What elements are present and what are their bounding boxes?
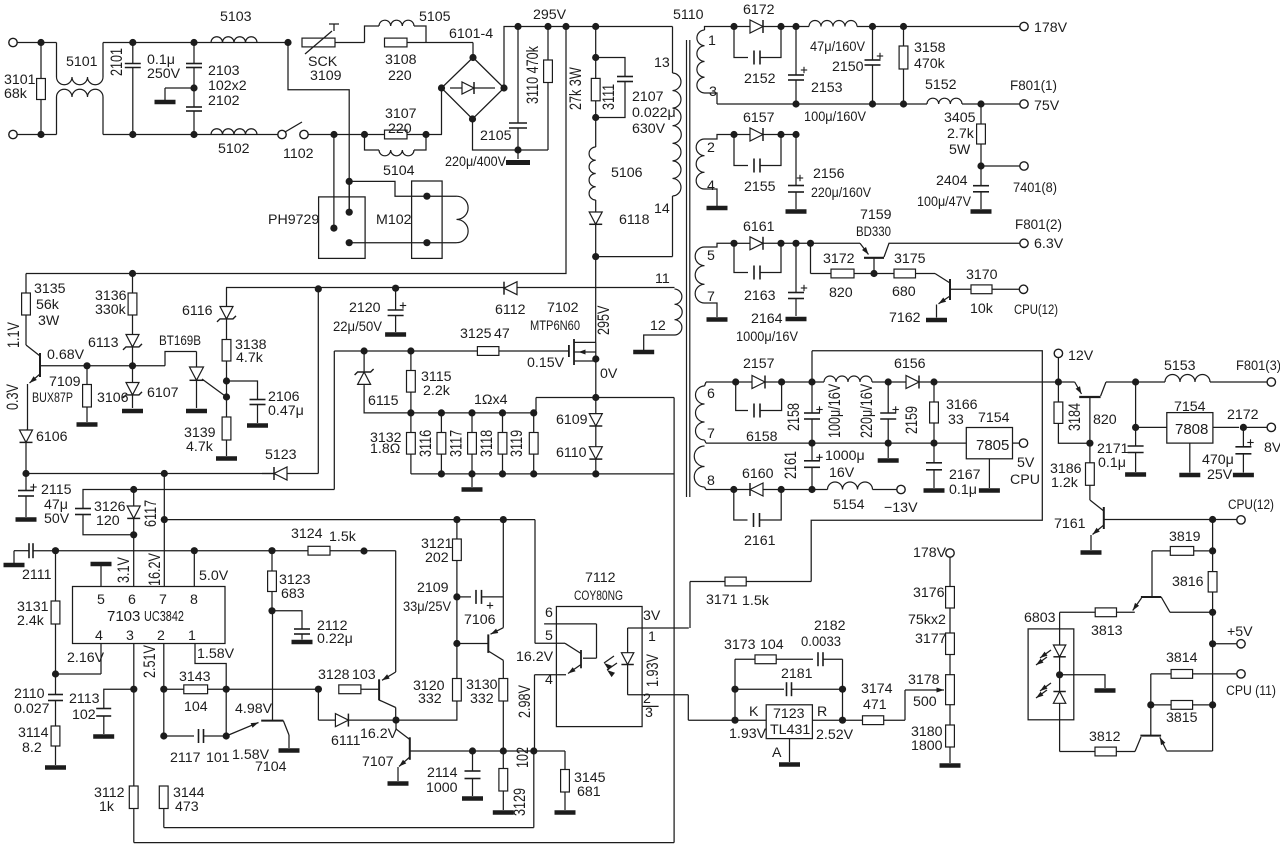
svg-text:3158: 3158 <box>914 40 946 56</box>
svg-text:7159: 7159 <box>860 207 892 223</box>
svg-text:1.93V: 1.93V <box>645 654 663 687</box>
svg-text:1.2k: 1.2k <box>1051 475 1079 491</box>
svg-text:7808: 7808 <box>1175 421 1208 438</box>
svg-text:2182: 2182 <box>814 618 846 634</box>
svg-text:2.7k: 2.7k <box>947 126 975 142</box>
svg-text:6109: 6109 <box>556 412 588 428</box>
svg-text:6106: 6106 <box>36 429 68 445</box>
svg-text:5101: 5101 <box>66 54 98 70</box>
svg-text:F801(2): F801(2) <box>1015 217 1062 233</box>
svg-text:3143: 3143 <box>179 669 211 685</box>
svg-text:2152: 2152 <box>744 71 776 87</box>
svg-text:3176: 3176 <box>913 585 945 601</box>
svg-text:BT169B: BT169B <box>159 333 201 349</box>
svg-text:5110: 5110 <box>673 7 704 23</box>
svg-text:R: R <box>817 704 827 720</box>
svg-text:7103: 7103 <box>107 608 140 625</box>
svg-text:4: 4 <box>545 672 553 688</box>
svg-text:5103: 5103 <box>220 9 252 25</box>
svg-text:2120: 2120 <box>349 300 381 316</box>
svg-text:7154: 7154 <box>1174 399 1206 415</box>
svg-text:BUX87P: BUX87P <box>32 390 73 406</box>
svg-text:7805: 7805 <box>976 437 1009 454</box>
svg-text:5154: 5154 <box>833 497 865 513</box>
svg-text:8.2: 8.2 <box>22 740 42 756</box>
svg-text:220μ/400V: 220μ/400V <box>445 154 506 170</box>
svg-text:A: A <box>772 745 782 761</box>
svg-text:CPU (11): CPU (11) <box>1226 683 1276 699</box>
svg-text:6107: 6107 <box>147 385 179 401</box>
svg-text:250V: 250V <box>147 66 181 82</box>
svg-text:3.1V: 3.1V <box>116 557 134 583</box>
svg-text:4: 4 <box>95 628 103 644</box>
svg-text:3184: 3184 <box>1067 403 1085 431</box>
svg-text:2102: 2102 <box>208 93 240 109</box>
svg-text:3171: 3171 <box>706 592 738 608</box>
svg-text:1k: 1k <box>99 799 115 815</box>
svg-text:1000μ/16V: 1000μ/16V <box>736 329 798 345</box>
svg-text:6172: 6172 <box>743 2 775 18</box>
svg-text:2155: 2155 <box>744 179 776 195</box>
svg-text:104: 104 <box>184 699 208 715</box>
svg-text:3813: 3813 <box>1091 623 1123 639</box>
svg-text:F801(3): F801(3) <box>1236 358 1280 374</box>
svg-text:CPU(12): CPU(12) <box>1014 302 1058 318</box>
svg-text:K: K <box>749 704 759 720</box>
svg-text:6157: 6157 <box>743 110 775 126</box>
svg-text:0.0033: 0.0033 <box>801 634 841 650</box>
svg-text:16.2V: 16.2V <box>516 649 554 665</box>
svg-text:5.0V: 5.0V <box>199 568 229 584</box>
svg-text:6: 6 <box>707 386 715 402</box>
svg-text:7104: 7104 <box>255 759 287 775</box>
svg-text:102: 102 <box>515 747 533 768</box>
svg-text:820: 820 <box>1093 412 1117 428</box>
svg-text:1: 1 <box>708 33 716 49</box>
svg-text:2.4k: 2.4k <box>17 613 45 629</box>
svg-text:681: 681 <box>577 784 601 800</box>
svg-text:7107: 7107 <box>362 754 394 770</box>
svg-text:6117: 6117 <box>143 500 161 527</box>
svg-text:2181: 2181 <box>781 666 813 682</box>
svg-text:3114: 3114 <box>18 725 49 741</box>
svg-text:5: 5 <box>707 248 715 264</box>
svg-text:3125: 3125 <box>460 326 492 342</box>
svg-text:3815: 3815 <box>1166 710 1198 726</box>
svg-text:1: 1 <box>648 629 656 645</box>
svg-text:7: 7 <box>707 289 715 305</box>
svg-text:3: 3 <box>645 705 653 721</box>
svg-text:6160: 6160 <box>742 466 774 482</box>
svg-text:PH9729: PH9729 <box>268 212 319 228</box>
svg-text:50V: 50V <box>44 511 70 527</box>
svg-text:2109: 2109 <box>417 580 449 596</box>
svg-text:8: 8 <box>707 473 715 489</box>
svg-text:0.22μ: 0.22μ <box>317 631 353 647</box>
svg-text:332: 332 <box>418 691 442 707</box>
svg-text:3174: 3174 <box>861 681 893 697</box>
svg-text:470k: 470k <box>914 56 946 72</box>
svg-text:3110 470k: 3110 470k <box>525 45 543 104</box>
svg-text:5102: 5102 <box>218 141 250 157</box>
svg-text:220μ/16V: 220μ/16V <box>859 384 877 438</box>
svg-text:3175: 3175 <box>894 251 926 267</box>
svg-text:100μ/16V: 100μ/16V <box>827 384 845 438</box>
svg-text:5152: 5152 <box>925 77 957 93</box>
svg-text:5153: 5153 <box>1164 358 1196 374</box>
svg-text:2114: 2114 <box>427 765 458 781</box>
svg-text:0.1μ: 0.1μ <box>949 482 977 498</box>
svg-text:2107: 2107 <box>632 89 664 105</box>
svg-text:220μ/160V: 220μ/160V <box>811 185 871 201</box>
svg-text:2150: 2150 <box>832 59 864 75</box>
svg-text:M102: M102 <box>376 212 412 228</box>
svg-text:MTP6N60: MTP6N60 <box>530 318 580 334</box>
svg-text:630V: 630V <box>632 121 666 137</box>
svg-text:7162: 7162 <box>889 310 921 326</box>
svg-text:178V: 178V <box>913 545 947 561</box>
svg-text:2105: 2105 <box>480 128 512 144</box>
svg-text:500: 500 <box>913 694 937 710</box>
svg-text:2: 2 <box>157 628 165 644</box>
svg-text:7106: 7106 <box>464 612 496 628</box>
svg-text:16V: 16V <box>829 465 855 481</box>
svg-text:5V: 5V <box>1017 455 1035 471</box>
svg-text:CPU: CPU <box>1010 472 1040 488</box>
svg-text:6: 6 <box>128 592 136 608</box>
svg-text:68k: 68k <box>4 86 28 102</box>
svg-text:202: 202 <box>425 550 449 566</box>
svg-text:470μ: 470μ <box>1202 452 1234 468</box>
svg-text:12V: 12V <box>1068 348 1094 364</box>
svg-text:220: 220 <box>388 68 412 84</box>
svg-text:12: 12 <box>650 318 666 334</box>
svg-text:2113: 2113 <box>69 691 100 707</box>
svg-text:6.3V: 6.3V <box>1034 236 1064 252</box>
svg-text:3118: 3118 <box>479 430 497 457</box>
svg-text:6161: 6161 <box>743 219 775 235</box>
svg-text:2161: 2161 <box>744 533 776 549</box>
svg-text:120: 120 <box>96 513 120 529</box>
svg-text:3166: 3166 <box>946 397 978 413</box>
svg-text:10k: 10k <box>970 301 994 317</box>
svg-text:102: 102 <box>72 707 96 723</box>
svg-text:2110: 2110 <box>14 686 45 702</box>
svg-text:3: 3 <box>126 628 134 644</box>
svg-text:6110: 6110 <box>556 445 587 461</box>
svg-text:3117: 3117 <box>448 430 466 457</box>
svg-text:11: 11 <box>655 271 670 287</box>
svg-text:2163: 2163 <box>744 288 776 304</box>
svg-text:6116: 6116 <box>182 303 213 319</box>
svg-text:295V: 295V <box>533 7 567 23</box>
svg-text:2164: 2164 <box>751 311 783 327</box>
svg-text:2161: 2161 <box>783 451 801 479</box>
svg-text:1102: 1102 <box>283 146 314 162</box>
svg-text:UC3842: UC3842 <box>144 608 184 625</box>
svg-text:7161: 7161 <box>1054 516 1086 532</box>
svg-text:8V: 8V <box>1264 440 1280 456</box>
svg-text:683: 683 <box>281 586 305 602</box>
svg-text:47μ/160V: 47μ/160V <box>810 39 865 55</box>
svg-text:1800: 1800 <box>911 738 943 754</box>
svg-text:1000: 1000 <box>426 780 458 796</box>
svg-text:−13V: −13V <box>884 500 918 516</box>
svg-text:3173: 3173 <box>724 637 756 653</box>
svg-text:F801(1): F801(1) <box>1010 78 1057 94</box>
svg-text:3109: 3109 <box>310 68 342 84</box>
svg-text:3170: 3170 <box>966 267 998 283</box>
svg-text:6115: 6115 <box>368 393 399 409</box>
svg-text:3108: 3108 <box>385 52 417 68</box>
svg-text:2115: 2115 <box>41 482 72 498</box>
svg-text:4.98V: 4.98V <box>235 701 273 717</box>
svg-text:100μ/160V: 100μ/160V <box>804 109 866 125</box>
svg-text:3819: 3819 <box>1169 529 1201 545</box>
svg-text:2159: 2159 <box>904 406 922 434</box>
svg-text:2156: 2156 <box>813 166 845 182</box>
svg-text:4: 4 <box>707 178 715 194</box>
svg-text:6118: 6118 <box>619 212 650 228</box>
svg-text:13: 13 <box>654 55 670 71</box>
svg-text:7112: 7112 <box>585 570 616 586</box>
svg-text:5105: 5105 <box>419 9 451 25</box>
svg-text:16.2V: 16.2V <box>360 726 398 742</box>
svg-text:27k 3W: 27k 3W <box>568 67 586 110</box>
svg-text:1.1V: 1.1V <box>6 322 24 348</box>
svg-text:5123: 5123 <box>265 447 297 463</box>
svg-text:1Ωx4: 1Ωx4 <box>474 392 508 408</box>
svg-text:3405: 3405 <box>944 110 976 126</box>
svg-text:6101-4: 6101-4 <box>449 26 493 42</box>
svg-text:1.5k: 1.5k <box>329 529 357 545</box>
svg-text:2157: 2157 <box>743 356 775 372</box>
svg-text:4.7k: 4.7k <box>236 350 264 366</box>
svg-text:0.47μ: 0.47μ <box>268 403 304 419</box>
svg-text:5: 5 <box>97 592 105 608</box>
svg-text:3124: 3124 <box>291 526 323 542</box>
svg-text:7109: 7109 <box>49 374 81 390</box>
svg-text:0.022μ: 0.022μ <box>632 105 676 121</box>
svg-text:3814: 3814 <box>1166 650 1198 666</box>
svg-text:3116: 3116 <box>418 430 436 457</box>
svg-text:1.5k: 1.5k <box>742 593 770 609</box>
svg-text:5: 5 <box>545 628 553 644</box>
svg-text:7: 7 <box>159 592 167 608</box>
svg-text:56k: 56k <box>36 297 60 313</box>
svg-text:100μ/47V: 100μ/47V <box>917 194 971 210</box>
svg-text:3129: 3129 <box>512 788 530 816</box>
svg-text:22μ/50V: 22μ/50V <box>333 319 382 335</box>
svg-text:2.51V: 2.51V <box>142 645 160 678</box>
svg-text:16.2V: 16.2V <box>147 553 165 586</box>
svg-text:3: 3 <box>709 84 717 100</box>
svg-text:2: 2 <box>707 140 715 156</box>
svg-text:3178: 3178 <box>908 672 940 688</box>
svg-text:103: 103 <box>352 667 376 683</box>
svg-text:2.2k: 2.2k <box>423 383 451 399</box>
svg-text:471: 471 <box>863 697 887 713</box>
svg-text:47: 47 <box>494 326 510 342</box>
svg-text:4.7k: 4.7k <box>186 439 214 455</box>
svg-text:3135: 3135 <box>34 281 66 297</box>
svg-text:1000μ: 1000μ <box>825 448 865 464</box>
svg-text:101: 101 <box>206 750 230 766</box>
svg-text:2.16V: 2.16V <box>67 650 105 666</box>
svg-text:2.52V: 2.52V <box>816 727 854 743</box>
svg-text:1.58V: 1.58V <box>197 646 235 662</box>
svg-text:6113: 6113 <box>88 335 119 351</box>
svg-text:3W: 3W <box>38 313 60 329</box>
svg-text:330k: 330k <box>95 302 127 318</box>
svg-text:2158: 2158 <box>786 403 804 431</box>
svg-text:3V: 3V <box>643 608 661 624</box>
svg-text:33: 33 <box>948 412 964 428</box>
svg-text:8: 8 <box>190 592 198 608</box>
svg-text:TL431: TL431 <box>770 722 810 738</box>
svg-text:0.15V: 0.15V <box>527 355 565 371</box>
svg-text:5104: 5104 <box>383 163 415 179</box>
svg-text:5106: 5106 <box>611 165 643 181</box>
svg-text:3177: 3177 <box>915 631 947 647</box>
svg-text:332: 332 <box>470 691 494 707</box>
svg-text:3119: 3119 <box>509 430 527 457</box>
svg-text:33μ/25V: 33μ/25V <box>403 599 451 615</box>
svg-text:3107: 3107 <box>385 106 417 122</box>
svg-text:7102: 7102 <box>547 300 579 316</box>
svg-text:+5V: +5V <box>1227 624 1253 640</box>
svg-text:3106: 3106 <box>97 390 129 406</box>
svg-text:BD330: BD330 <box>856 224 891 240</box>
svg-text:2167: 2167 <box>949 467 981 483</box>
svg-text:473: 473 <box>175 799 199 815</box>
svg-text:178V: 178V <box>1034 20 1068 36</box>
svg-text:102x2: 102x2 <box>208 78 247 94</box>
svg-text:6156: 6156 <box>894 356 926 372</box>
svg-text:3128: 3128 <box>318 667 350 683</box>
svg-text:CPU(12): CPU(12) <box>1228 497 1274 513</box>
svg-text:6111: 6111 <box>331 733 361 749</box>
svg-text:2.98V: 2.98V <box>517 685 535 718</box>
svg-text:2103: 2103 <box>208 63 240 79</box>
svg-text:6112: 6112 <box>495 302 526 318</box>
svg-text:0.1μ: 0.1μ <box>1098 455 1126 471</box>
svg-text:2153: 2153 <box>811 80 843 96</box>
svg-text:680: 680 <box>892 284 916 300</box>
svg-text:0.027: 0.027 <box>14 701 50 717</box>
svg-text:COY80NG: COY80NG <box>574 588 623 604</box>
svg-text:295V: 295V <box>596 305 614 335</box>
svg-text:0V: 0V <box>600 366 618 382</box>
svg-text:2111: 2111 <box>22 567 52 583</box>
svg-text:220: 220 <box>388 121 412 137</box>
svg-text:7123: 7123 <box>773 706 805 722</box>
svg-text:3111: 3111 <box>601 84 619 110</box>
svg-text:1: 1 <box>188 628 196 644</box>
svg-text:7401(8): 7401(8) <box>1013 180 1057 196</box>
svg-text:75kx2: 75kx2 <box>908 612 946 628</box>
svg-text:3172: 3172 <box>823 251 855 267</box>
svg-text:6803: 6803 <box>1024 610 1056 626</box>
svg-text:0.68V: 0.68V <box>47 347 85 363</box>
svg-text:820: 820 <box>829 285 853 301</box>
svg-text:2404: 2404 <box>936 173 968 189</box>
svg-text:5W: 5W <box>949 142 971 158</box>
svg-text:14: 14 <box>654 201 670 217</box>
svg-text:7154: 7154 <box>978 410 1010 426</box>
svg-text:25V: 25V <box>1207 467 1233 483</box>
svg-text:6: 6 <box>545 605 553 621</box>
svg-text:7: 7 <box>707 426 715 442</box>
svg-text:0.3V: 0.3V <box>5 384 23 410</box>
svg-text:2172: 2172 <box>1227 407 1259 423</box>
svg-text:2101: 2101 <box>109 48 127 76</box>
svg-text:2117: 2117 <box>170 750 201 766</box>
svg-text:1.8Ω: 1.8Ω <box>370 441 400 457</box>
svg-text:3812: 3812 <box>1089 729 1121 745</box>
svg-text:75V: 75V <box>1034 98 1060 114</box>
svg-text:1.93V: 1.93V <box>729 726 767 742</box>
svg-text:3816: 3816 <box>1172 574 1204 590</box>
svg-text:104: 104 <box>760 637 784 653</box>
